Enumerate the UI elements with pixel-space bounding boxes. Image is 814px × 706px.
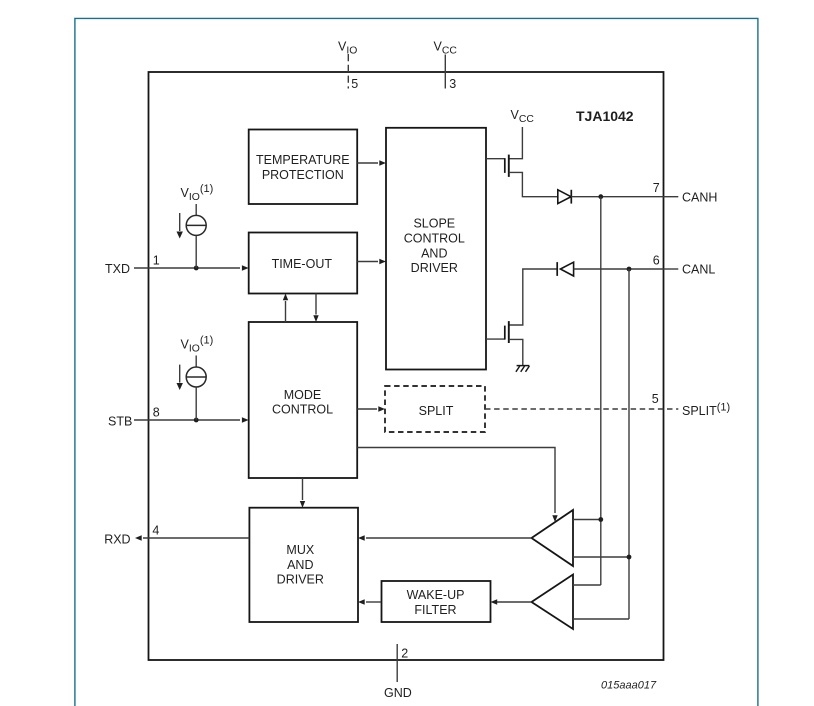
wire RX2 input from CANL bus <box>573 618 629 620</box>
wire MODE CONTROL up to TIME-OUT <box>285 301 287 322</box>
arrow I2 direction <box>179 365 181 383</box>
pin CANH stub <box>664 196 679 198</box>
block WAKE-UP FILTER <box>382 581 491 622</box>
ground <box>517 365 530 367</box>
wire WAKE-UP FILTER to MUX <box>366 601 381 603</box>
svg-text:MUX: MUX <box>286 543 314 557</box>
net CANL bus vertical <box>628 269 630 619</box>
receiver RX2 (wake-up) <box>532 575 574 630</box>
svg-text:RXD: RXD <box>104 532 130 546</box>
pin CANL stub <box>664 268 679 270</box>
wire D1 to pin CANH <box>571 196 663 198</box>
receiver RX1 <box>532 510 574 566</box>
junction CANL node <box>627 267 632 272</box>
current source I1 (VIO) <box>195 204 197 215</box>
wire MODE CONTROL to receiver RX1 <box>357 448 555 514</box>
net CANH bus vertical <box>600 197 602 585</box>
junction CANH node <box>598 194 603 199</box>
pin TXD wire <box>134 267 240 269</box>
svg-text:GND: GND <box>384 686 412 700</box>
svg-text:SLOPE: SLOPE <box>413 217 455 231</box>
wire Q2 source to ground <box>509 339 523 365</box>
transistor Q1 (high-side MOSFET) <box>486 158 505 160</box>
svg-text:FILTER: FILTER <box>414 603 456 617</box>
wire MODE CONTROL down to MUX <box>302 478 304 500</box>
wire RX2 output to WAKE-UP FILTER <box>497 601 532 603</box>
svg-text:CANH: CANH <box>682 190 717 204</box>
pin STB wire <box>134 419 240 421</box>
pin 5 tick (dashed) <box>347 54 349 89</box>
pin 3 tick <box>444 55 446 89</box>
svg-text:PROTECTION: PROTECTION <box>262 168 344 182</box>
wire RX1 input from CANL bus <box>573 556 629 558</box>
svg-text:SPLIT: SPLIT <box>419 404 454 418</box>
svg-text:1: 1 <box>153 254 160 268</box>
svg-text:CANL: CANL <box>682 263 715 277</box>
block TEMPERATURE PROTECTION <box>249 130 358 205</box>
block SPLIT (dashed) <box>385 386 485 432</box>
svg-text:TEMPERATURE: TEMPERATURE <box>256 153 350 167</box>
wire Q1 source to CANH <box>509 172 558 196</box>
svg-text:TIME-OUT: TIME-OUT <box>272 257 333 271</box>
junction TXD node <box>194 266 199 271</box>
svg-text:3: 3 <box>449 77 456 91</box>
wire RX1 input from CANH bus <box>573 519 601 521</box>
block MUX AND DRIVER <box>249 508 358 622</box>
svg-text:6: 6 <box>653 253 660 267</box>
wire RX2 input from CANH bus <box>573 584 601 586</box>
svg-text:DRIVER: DRIVER <box>411 261 458 275</box>
IC outline box <box>149 72 664 660</box>
svg-text:8: 8 <box>153 406 160 420</box>
svg-text:DRIVER: DRIVER <box>277 572 324 586</box>
junction STB node <box>194 418 199 423</box>
block TIME-OUT <box>249 233 358 294</box>
svg-text:2: 2 <box>401 647 408 661</box>
junction RX1-CANL node <box>627 555 632 560</box>
wire D2 to pin CANL <box>574 268 664 270</box>
wire TIME-OUT to SLOPE <box>357 261 378 263</box>
svg-text:STB: STB <box>108 414 132 428</box>
svg-text:WAKE-UP: WAKE-UP <box>407 588 465 602</box>
diode D1 (CANH) <box>558 190 571 204</box>
svg-text:4: 4 <box>152 524 159 538</box>
net SPLIT (dashed) to pin 5 <box>485 408 678 410</box>
svg-text:5: 5 <box>351 77 358 91</box>
wire MODE CONTROL to SPLIT <box>357 408 377 410</box>
block SLOPE CONTROL AND DRIVER <box>386 128 486 370</box>
current source I2 (VIO) <box>195 356 197 367</box>
svg-text:7: 7 <box>653 181 660 195</box>
transistor Q2 (low-side MOSFET) <box>486 338 505 340</box>
svg-text:MODE: MODE <box>284 388 322 402</box>
arrow I1 direction <box>179 213 181 231</box>
svg-text:AND: AND <box>287 558 313 572</box>
svg-text:AND: AND <box>421 247 447 261</box>
wire TEMPERATURE PROTECTION to SLOPE <box>357 162 378 164</box>
pin RXD wire <box>143 537 249 539</box>
svg-text:CONTROL: CONTROL <box>272 402 333 416</box>
svg-text:TXD: TXD <box>105 262 130 276</box>
wire Q2 drain to CANL <box>509 269 557 325</box>
svg-text:TJA1042: TJA1042 <box>576 108 634 124</box>
diode D2 (CANL) <box>556 262 558 276</box>
block MODE CONTROL <box>249 322 358 478</box>
wire TIME-OUT down to MODE CONTROL <box>315 294 317 315</box>
wire VCC to Q1 drain <box>509 127 523 159</box>
wire RX1 output to MUX <box>366 537 532 539</box>
junction RX1-CANH node <box>598 517 603 522</box>
svg-text:015aaa017: 015aaa017 <box>601 679 657 691</box>
svg-text:CONTROL: CONTROL <box>404 231 465 245</box>
pin 2 tick (GND) <box>396 644 398 682</box>
svg-text:5: 5 <box>652 392 659 406</box>
